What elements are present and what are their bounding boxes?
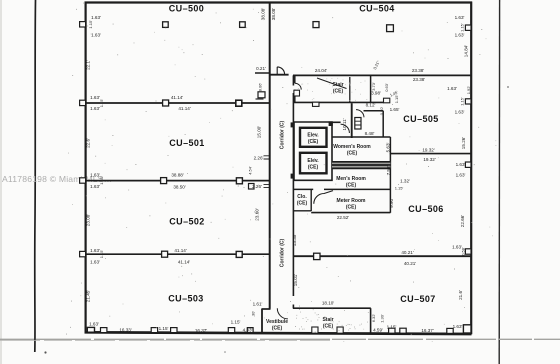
svg-text:.30': .30' — [251, 311, 256, 318]
svg-text:19.32': 19.32' — [423, 157, 435, 162]
stair bottom inner mark 2 — [337, 327, 343, 333]
notch on bottom wall x229 — [228, 328, 234, 333]
svg-text:Corridor (C): Corridor (C) — [280, 121, 286, 150]
notch on bottom wall x101 — [101, 328, 107, 333]
notch on bottom wall x400 — [400, 328, 406, 333]
svg-text:(CE): (CE) — [333, 89, 344, 95]
svg-text:1.15': 1.15' — [231, 319, 241, 324]
svg-text:1.63': 1.63' — [456, 173, 466, 178]
svg-text:0.50': 0.50' — [379, 106, 384, 115]
svg-text:1.15': 1.15' — [395, 186, 404, 191]
svg-text:CU–501: CU–501 — [169, 138, 204, 148]
svg-text:4.33': 4.33' — [243, 327, 253, 332]
scan speckle noise — [66, 3, 496, 342]
svg-text:9.90': 9.90' — [389, 198, 394, 208]
svg-text:15.26': 15.26' — [461, 137, 466, 149]
svg-text:1.63': 1.63' — [456, 162, 466, 167]
wall: divider CU-501 / CU-502 — [86, 180, 270, 182]
wall: lobby pocket vertical wall — [351, 103, 353, 138]
svg-text:0.21': 0.21' — [256, 66, 266, 71]
svg-text:CU–507: CU–507 — [400, 294, 435, 304]
notch on bottom wall x248 — [247, 328, 253, 333]
svg-text:16.37': 16.37' — [421, 328, 433, 333]
svg-text:21.6': 21.6' — [458, 290, 463, 300]
svg-text:1.15': 1.15' — [460, 23, 465, 32]
svg-text:23.38': 23.38' — [412, 68, 424, 73]
left scan border line — [34, 0, 37, 352]
wall: women's room top wall — [332, 136, 390, 138]
column square CU-504 a — [313, 22, 319, 28]
wall: divider CU-506 / CU-507 — [293, 255, 472, 257]
svg-text:23.60': 23.60' — [254, 208, 259, 220]
notch on right wall y165 — [465, 162, 471, 167]
svg-text:1.15': 1.15' — [99, 98, 104, 107]
notch on right wall y27 — [465, 25, 471, 30]
svg-text:0.63': 0.63' — [384, 83, 389, 92]
survey square2 on divider1 — [236, 100, 242, 106]
svg-text:23.38': 23.38' — [413, 77, 425, 82]
fixture box in hallway — [355, 118, 361, 130]
wall: bottom stair right wall — [370, 308, 372, 334]
svg-text:Stair: Stair — [322, 317, 333, 323]
bottom-right corner jog box — [463, 325, 471, 333]
hatched demising band between restrooms — [332, 161, 390, 168]
svg-text:1.63': 1.63' — [89, 321, 99, 326]
svg-text:Men's Room: Men's Room — [336, 176, 366, 182]
door arc: corridor top entry — [277, 67, 284, 74]
wall: men's room bottom / meter room top — [294, 188, 390, 190]
survey square2 on divider2 — [236, 178, 242, 184]
wall: restroom hallway top wall — [364, 111, 384, 137]
svg-text:CU–504: CU–504 — [359, 4, 394, 14]
svg-text:16.33': 16.33' — [119, 327, 131, 332]
svg-text:Vestibule: Vestibule — [266, 319, 288, 325]
svg-text:(CE): (CE) — [308, 165, 319, 171]
notch below stair bottom wall — [313, 102, 320, 106]
stray speck bottom center — [224, 351, 226, 353]
svg-text:8.48': 8.48' — [365, 131, 375, 136]
column bump left of elevator bottom — [291, 174, 295, 179]
svg-text:Elev.: Elev. — [307, 158, 319, 164]
svg-text:38.08': 38.08' — [261, 8, 266, 20]
wall: central corridor left wall — [269, 2, 271, 309]
wall: corridor-to-vestibule jog — [262, 308, 271, 310]
wall: plan top boundary — [85, 1, 473, 3]
notch on right wall y251 — [465, 249, 471, 254]
svg-text:Clo.: Clo. — [297, 194, 307, 200]
left page edge shading — [0, 0, 2, 364]
wall: plan right boundary — [470, 2, 472, 335]
svg-text:2.26': 2.26' — [254, 156, 264, 161]
svg-text:1.15': 1.15' — [99, 249, 104, 258]
notch on bottom wall x447 — [447, 328, 453, 333]
notch on left wall y254 — [80, 251, 86, 256]
wall: elevator top wall stub — [332, 121, 341, 123]
svg-text:41.14': 41.14' — [174, 248, 186, 253]
wall: closet bottom wall — [293, 210, 311, 212]
svg-text:1.63': 1.63' — [453, 324, 463, 329]
bottom-left corner jog box — [87, 327, 94, 332]
door arc: hallway door — [356, 110, 364, 118]
svg-text:8.12': 8.12' — [366, 103, 376, 108]
wall: CU-500 stub wall at corridor top — [255, 72, 270, 74]
svg-text:40.21': 40.21' — [401, 250, 413, 255]
svg-text:Corridor (C): Corridor (C) — [280, 239, 286, 268]
tick jog on central wall y186 — [264, 184, 271, 187]
stair bottom inner mark 1 — [312, 327, 318, 333]
wall: stair room inner divider — [349, 77, 351, 102]
svg-text:Stair: Stair — [332, 82, 343, 88]
notch on bottom wall x152 — [151, 328, 157, 333]
survey square2 on divider3 — [236, 251, 242, 257]
svg-text:22.6': 22.6' — [86, 138, 91, 148]
svg-text:(CE): (CE) — [272, 326, 283, 332]
svg-text:1.32': 1.32' — [400, 179, 410, 184]
svg-text:21.45': 21.45' — [86, 290, 91, 302]
svg-text:8.06': 8.06' — [258, 82, 263, 91]
stair diagonal tread line — [317, 78, 347, 89]
svg-text:1.15': 1.15' — [460, 97, 465, 106]
survey square on divider CU-506/507 — [314, 253, 320, 259]
svg-text:1.65': 1.65' — [390, 107, 400, 112]
svg-text:10.11': 10.11' — [342, 118, 347, 130]
svg-text:22.66': 22.66' — [460, 215, 465, 227]
svg-text:1.15': 1.15' — [99, 176, 104, 185]
svg-text:(CE): (CE) — [323, 324, 334, 330]
elevator car 1 box — [300, 128, 327, 147]
svg-text:38.88': 38.88' — [171, 173, 183, 178]
wall: plan left boundary — [84, 2, 86, 334]
wall: stair room right wall — [370, 75, 372, 102]
right scan border line — [498, 0, 500, 364]
svg-text:(CE): (CE) — [346, 205, 357, 211]
svg-text:6.32': 6.32' — [371, 313, 376, 322]
wall: meter room bottom wall — [311, 212, 390, 214]
svg-text:19.32': 19.32' — [422, 148, 434, 153]
svg-text:13.35': 13.35' — [292, 234, 297, 246]
svg-text:1.15': 1.15' — [159, 326, 169, 331]
notch on bottom wall x389 — [389, 328, 395, 333]
svg-text:1.63': 1.63' — [452, 245, 462, 250]
stray speck right margin — [507, 86, 509, 88]
survey square on divider2 — [161, 178, 167, 184]
svg-text:1.63': 1.63' — [455, 33, 465, 38]
notch in CU-505 near stair — [384, 98, 390, 103]
svg-text:38.08': 38.08' — [271, 8, 276, 20]
svg-text:4.59': 4.59' — [373, 327, 383, 332]
wall: stair room bottom wall — [294, 101, 384, 103]
svg-text:41.14': 41.14' — [178, 106, 190, 111]
column square CU-500 b — [240, 22, 246, 28]
svg-text:1.15': 1.15' — [387, 325, 397, 330]
svg-text:24.04': 24.04' — [315, 68, 327, 73]
svg-text:38.50': 38.50' — [173, 185, 185, 190]
svg-text:Meter Room: Meter Room — [337, 198, 366, 204]
column square CU-504 b — [387, 25, 394, 32]
svg-text:41.14': 41.14' — [171, 95, 183, 100]
svg-text:41.14': 41.14' — [178, 260, 190, 265]
tick left of central wall y99 — [256, 98, 264, 100]
svg-text:23.08': 23.08' — [86, 214, 91, 226]
svg-text:(CE): (CE) — [346, 183, 357, 189]
svg-text:(CE): (CE) — [347, 151, 358, 157]
wall: closet right wall — [310, 189, 312, 211]
elevator shaft outer box — [294, 122, 332, 180]
notch on left wall y103 — [80, 100, 86, 105]
door arc: vestibule entry — [277, 308, 288, 319]
wall: divider CU-500 / CU-501 — [86, 102, 270, 104]
svg-text:18.10': 18.10' — [322, 301, 334, 306]
svg-text:16.37': 16.37' — [195, 328, 207, 333]
wall: stair room left wall — [294, 75, 296, 102]
svg-text:1.63': 1.63' — [447, 86, 457, 91]
wall: restroom block right wall — [389, 137, 391, 213]
wall: divider CU-505 / CU-506 — [390, 153, 472, 155]
svg-text:(CE): (CE) — [297, 201, 308, 207]
survey square on divider1 — [163, 100, 169, 106]
svg-text:CU–500: CU–500 — [169, 4, 204, 14]
svg-text:14.84': 14.84' — [464, 45, 469, 57]
svg-text:2.26': 2.26' — [252, 184, 262, 189]
svg-text:3.73': 3.73' — [371, 82, 376, 91]
wall: divider CU-502 / CU-503 — [86, 253, 270, 255]
elevator car 2 box — [300, 153, 327, 174]
svg-text:1.63': 1.63' — [91, 33, 101, 38]
svg-text:1.61': 1.61' — [253, 302, 263, 307]
svg-text:15.01': 15.01' — [293, 274, 298, 286]
svg-text:4.54': 4.54' — [248, 166, 253, 175]
bottom scan artifact line — [0, 338, 560, 340]
door arc: lobby pocket door — [341, 124, 350, 133]
svg-text:1.92': 1.92' — [466, 85, 471, 94]
svg-text:7.53': 7.53' — [386, 165, 391, 175]
notch on stair left wall — [294, 90, 300, 96]
wall: bottom block top wall (vestibule/stair) — [293, 307, 371, 309]
stray speck bottom left — [44, 351, 46, 353]
tick jog on central wall y157 — [264, 156, 271, 159]
notch below divider2 right end — [249, 184, 255, 190]
door arc: meter room door — [314, 191, 333, 204]
survey square on divider3 — [162, 251, 168, 257]
svg-text:40.21': 40.21' — [404, 261, 416, 266]
notch on left wall y180 — [80, 178, 86, 183]
svg-text:5.63': 5.63' — [386, 142, 391, 152]
svg-text:1.63': 1.63' — [455, 15, 465, 20]
notch on left wall y24 — [80, 22, 86, 27]
svg-text:22.52': 22.52' — [337, 215, 349, 220]
svg-text:1.30': 1.30' — [380, 314, 385, 323]
wall: corridor right wall segments — [292, 75, 294, 308]
wall: plan bottom boundary — [85, 332, 472, 334]
column bump left of elevator top — [291, 122, 295, 127]
door arc: stair to corridor — [295, 83, 301, 89]
svg-text:(CE): (CE) — [308, 139, 319, 145]
notch on right wall y101 — [465, 99, 471, 104]
svg-text:CU–505: CU–505 — [403, 114, 438, 124]
svg-text:Women's Room: Women's Room — [333, 144, 371, 150]
svg-text:CU–502: CU–502 — [169, 217, 204, 227]
notch above divider1 right end — [258, 92, 265, 98]
svg-text:1.63': 1.63' — [91, 15, 101, 20]
svg-text:CU–503: CU–503 — [168, 294, 203, 304]
column square CU-500 a — [163, 22, 169, 28]
svg-text:22.1': 22.1' — [86, 60, 91, 70]
notch on bottom wall x171 — [171, 328, 177, 333]
wall: divider CU-504 / CU-505 — [270, 74, 472, 77]
svg-text:CU–506: CU–506 — [408, 204, 443, 214]
svg-text:1.63': 1.63' — [90, 260, 100, 265]
wall: vestibule left wall — [261, 309, 263, 333]
svg-text:Elev.: Elev. — [307, 133, 319, 139]
svg-text:15.00': 15.00' — [257, 126, 262, 138]
svg-text:1.63': 1.63' — [455, 110, 465, 115]
svg-text:1.15': 1.15' — [88, 20, 93, 29]
column bump elevator top right — [329, 121, 333, 126]
